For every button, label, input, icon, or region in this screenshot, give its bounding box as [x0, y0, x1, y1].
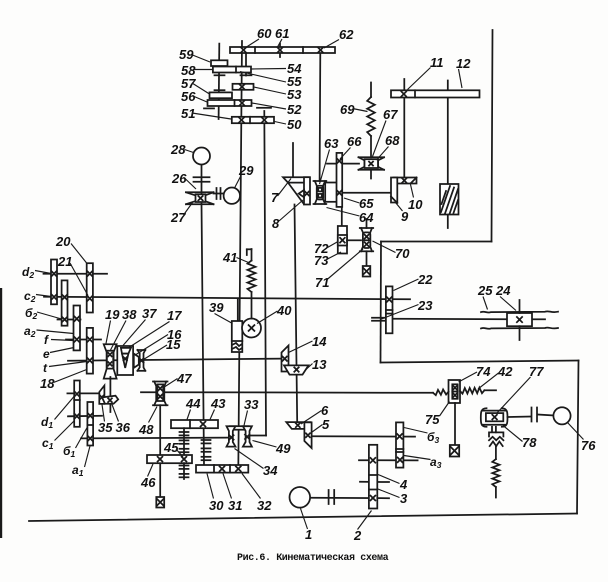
cone 14 — [282, 346, 289, 372]
svg-text:44: 44 — [185, 396, 201, 411]
wire horizontal y=193 (clutch 63 shaft to bracket 9) — [329, 192, 391, 194]
gear 53 — [233, 84, 254, 90]
wire horizontal y=436 (cone 5 to gear b3) — [312, 435, 416, 437]
gear 30-31-32 — [196, 465, 248, 473]
svg-text:25: 25 — [477, 283, 493, 298]
cone 7 — [283, 177, 310, 204]
wire jog clutch49 to shaft x=265 — [250, 435, 266, 437]
wire tick y=482 on gear 4 — [360, 481, 389, 483]
svg-text:76: 76 — [581, 438, 596, 453]
worm wheel 67-68 — [359, 157, 385, 170]
svg-text:б3: б3 — [427, 430, 439, 445]
gear column b1-a1 — [87, 402, 93, 446]
wire horizontal L8 y=438 (shaft a1 to clutch 33) — [81, 437, 228, 440]
svg-text:71: 71 — [315, 275, 329, 290]
hanger xbox below 46 — [156, 497, 164, 508]
svg-text:62: 62 — [339, 27, 354, 42]
wire stem below 70 — [366, 251, 368, 266]
spline teeth on shaft 30 — [202, 440, 211, 460]
wheel 40 — [242, 319, 261, 338]
clutch sleeve 63 — [314, 181, 327, 204]
svg-text:3: 3 — [400, 491, 408, 506]
weight 12 hatched — [440, 184, 459, 215]
svg-text:б1: б1 — [63, 444, 75, 459]
svg-text:35: 35 — [98, 420, 113, 435]
svg-text:d2: d2 — [22, 265, 34, 280]
cone 5 — [304, 422, 311, 448]
gear 72-73 — [338, 226, 347, 254]
wire shaft V x=265 (gear 50 to clutch 49) — [264, 111, 266, 436]
rack bar 11-12 — [391, 90, 480, 97]
wire right frame vertical upper — [492, 30, 493, 242]
svg-text:10: 10 — [408, 197, 423, 212]
coupling below 28 — [194, 177, 210, 181]
svg-text:29: 29 — [238, 163, 254, 178]
spring 78 — [492, 459, 499, 487]
wire horizontal L4 y=339.5 — [66, 339, 101, 341]
scan artifact left edge — [0, 288, 2, 538]
svg-text:22: 22 — [417, 272, 433, 287]
svg-text:23: 23 — [417, 298, 433, 313]
svg-text:21: 21 — [57, 254, 72, 269]
svg-text:2: 2 — [353, 528, 362, 543]
svg-text:6: 6 — [321, 403, 329, 418]
svg-text:47: 47 — [176, 371, 192, 386]
svg-text:53: 53 — [287, 87, 302, 102]
gear 57 — [210, 92, 233, 98]
svg-text:42: 42 — [497, 364, 513, 379]
motor 1 — [290, 487, 311, 508]
gear 56-52 — [208, 100, 252, 106]
svg-text:34: 34 — [263, 463, 278, 478]
cone 13 — [284, 365, 309, 374]
wire link 72 to 70 — [347, 239, 361, 241]
wire horizontal y=163.6 (gear 66 to worm 68) — [327, 163, 359, 165]
svg-text:30: 30 — [209, 498, 224, 513]
wire stem above damper 39 — [237, 299, 239, 321]
wire shaft V x=246 (top bar to gear 54) — [245, 53, 247, 76]
gear column f-e — [74, 306, 81, 351]
svg-text:13: 13 — [312, 357, 327, 372]
wire shaft V x=295 (cone 7 - cone 14 - cone 6) — [293, 143, 297, 422]
cone 36 — [102, 396, 118, 404]
svg-text:а3: а3 — [430, 455, 442, 470]
svg-text:9: 9 — [401, 209, 409, 224]
damper 74 — [449, 380, 461, 403]
cone 8 wedge — [299, 190, 309, 197]
svg-text:12: 12 — [456, 56, 471, 71]
svg-text:66: 66 — [347, 134, 362, 149]
wire horizontal L3 y=319.5 — [58, 319, 81, 321]
wire frame bottom horizontal — [29, 514, 577, 522]
cup 37 — [117, 346, 133, 375]
wire stem clutch 38 to cone 35 — [109, 377, 111, 412]
svg-text:38: 38 — [122, 307, 137, 322]
wire horizontal L7 y=416 — [68, 415, 102, 418]
svg-text:48: 48 — [138, 422, 154, 437]
svg-text:d1: d1 — [41, 415, 53, 430]
svg-text:52: 52 — [287, 102, 302, 117]
svg-text:74: 74 — [476, 364, 491, 379]
coupling to 29 — [214, 188, 225, 199]
svg-text:Рис.6. Кинематическая схема: Рис.6. Кинематическая схема — [237, 553, 389, 564]
wire below spring 78 — [495, 487, 497, 498]
bracket gear 15 — [138, 350, 146, 371]
svg-text:27: 27 — [170, 210, 186, 225]
svg-text:4: 4 — [399, 477, 408, 492]
cone 6 — [286, 422, 310, 429]
handwheel 28 — [193, 148, 210, 165]
svg-text:15: 15 — [166, 337, 181, 352]
svg-text:40: 40 — [276, 303, 292, 318]
svg-text:33: 33 — [244, 397, 259, 412]
sleeve 47-48 — [153, 382, 168, 406]
coupling on motor 1 shaft — [329, 490, 335, 504]
wire frame horizontal y=241 — [381, 241, 492, 243]
wire spring 41 stem — [247, 249, 252, 261]
svg-text:63: 63 — [324, 136, 339, 151]
spline teeth below 45 — [180, 463, 189, 479]
svg-text:45: 45 — [163, 440, 179, 455]
svg-text:46: 46 — [140, 475, 156, 490]
handwheel 76 — [553, 407, 570, 424]
gear 44-43 — [171, 420, 218, 428]
svg-text:73: 73 — [314, 253, 329, 268]
clutch sleeve 70-71 — [360, 228, 373, 251]
wire spring 41 to wheel 40 — [251, 292, 253, 319]
hanger xbox below 74 — [450, 445, 459, 457]
handwheel 29 — [224, 188, 240, 204]
bracket 9-10 — [391, 178, 417, 204]
wire 77 to coupling — [508, 416, 532, 419]
svg-text:б2: б2 — [25, 306, 37, 321]
svg-text:70: 70 — [395, 246, 410, 261]
wire after spring 42 — [484, 389, 496, 391]
svg-text:32: 32 — [257, 498, 272, 513]
spring 41 — [248, 261, 256, 293]
coupling 77-76 — [532, 408, 554, 422]
gear 22-23 — [386, 286, 393, 333]
svg-text:41: 41 — [222, 250, 237, 265]
wire shaft V x=241 (gear53/52 to clutch 33 and gear 31) — [238, 41, 242, 469]
svg-text:67: 67 — [383, 107, 398, 122]
cone 17 inside 37 — [121, 348, 131, 368]
svg-text:59: 59 — [179, 47, 194, 62]
svg-text:a2: a2 — [24, 324, 36, 339]
wire shaft V x=448 (wheel 12 to weight) — [447, 81, 449, 229]
svg-text:37: 37 — [142, 306, 157, 321]
svg-text:11: 11 — [430, 55, 444, 70]
gear column t-18 — [87, 328, 93, 374]
svg-text:e: e — [43, 347, 50, 361]
gear 66 — [337, 153, 343, 207]
svg-text:5: 5 — [322, 417, 330, 432]
wire stem ratchet to spring 78 — [495, 446, 497, 459]
wire horizontal L6 y=393.4 (shaft d1) — [67, 392, 100, 394]
svg-text:75: 75 — [425, 412, 440, 427]
svg-text:78: 78 — [522, 435, 537, 450]
svg-text:50: 50 — [287, 117, 302, 132]
wire tick stubs top train — [204, 44, 280, 109]
svg-text:24: 24 — [495, 283, 511, 298]
svg-text:31: 31 — [228, 498, 242, 513]
wire shaft V x=219 (gears 59-51) — [218, 44, 221, 119]
svg-text:43: 43 — [210, 396, 226, 411]
gear block top bar 60-61-62 — [230, 47, 335, 53]
cone 16 — [134, 354, 139, 368]
wire shaft V x=404 (wheel 11 to bracket 9) — [403, 79, 405, 178]
gear b3-a3 — [396, 422, 403, 467]
svg-text:77: 77 — [529, 364, 544, 379]
wire horizontal L2 y=297 (long shaft c2 to gear 22) — [44, 297, 410, 300]
svg-text:c2: c2 — [24, 289, 36, 304]
gear 51-50 — [232, 117, 274, 123]
gear 4-3-2 — [369, 445, 377, 509]
gear 59 — [211, 60, 228, 66]
wire horizontal y=392 (long shaft 47 to damper 74) — [141, 391, 433, 394]
svg-text:61: 61 — [275, 26, 289, 41]
gear 58-54 — [213, 67, 251, 73]
cone 35 — [99, 386, 104, 404]
wire horizontal y=460 (gear a3 shaft) — [359, 459, 418, 461]
svg-text:a1: a1 — [72, 463, 84, 478]
hub between 63 and 66 — [325, 183, 337, 202]
spring 69 — [367, 97, 375, 136]
svg-text:19: 19 — [105, 307, 120, 322]
svg-text:17: 17 — [167, 308, 182, 323]
svg-text:7: 7 — [271, 190, 279, 205]
wire frame vertical x=381 — [380, 242, 383, 363]
lead screw nut 24 and screw 25 — [481, 300, 558, 340]
wire stem above 70 — [366, 219, 368, 228]
gear column d1-c1 — [74, 381, 80, 427]
wire double line left of gear 23 — [372, 318, 387, 321]
wire shaft V x=320 (wheel 62 to clutch 63) — [319, 53, 322, 181]
friction drive 77 — [481, 408, 508, 427]
svg-text:t: t — [43, 361, 48, 375]
clutch sleeve 19-38 — [104, 344, 117, 378]
svg-text:c1: c1 — [42, 436, 54, 451]
svg-text:60: 60 — [257, 26, 272, 41]
gear column b2 — [62, 280, 68, 325]
svg-text:39: 39 — [209, 300, 224, 315]
svg-text:65: 65 — [359, 196, 374, 211]
worm gear 26-27 — [186, 192, 214, 204]
svg-text:36: 36 — [116, 420, 131, 435]
wire horizontal L5 y=360 (shaft to cone 14) — [68, 359, 282, 361]
svg-text:14: 14 — [312, 334, 327, 349]
svg-text:8: 8 — [272, 216, 280, 231]
spring 42 right of 74 — [460, 388, 484, 394]
svg-text:68: 68 — [385, 133, 400, 148]
ratchet 78 below 77 — [489, 427, 503, 446]
wire horizontal y=498 (motor 1 shaft to gear 3) — [310, 497, 389, 499]
gear column d2-c2 — [51, 260, 57, 305]
svg-text:64: 64 — [359, 210, 374, 225]
svg-text:49: 49 — [275, 441, 291, 456]
wire horizontal y=319 (lead screw shaft) — [393, 318, 546, 321]
wire stem below 74 — [454, 403, 456, 445]
wire horizontal L1 y=273.7 (shaft d2) — [44, 273, 108, 275]
spline teeth on shaft 45 — [180, 428, 189, 455]
hanger xbox below 70 — [363, 266, 371, 277]
wire shaft 48 down — [159, 405, 161, 497]
svg-text:f: f — [44, 333, 49, 347]
gear 45-46 — [147, 455, 192, 463]
svg-text:28: 28 — [170, 142, 186, 157]
claw clutch 33-34-49 — [227, 426, 252, 446]
damper 39 — [232, 321, 243, 352]
wire spring69 stem — [370, 83, 372, 98]
gear column 20-21 — [87, 263, 93, 312]
svg-text:18: 18 — [40, 376, 55, 391]
spring left of 74 — [433, 390, 449, 396]
svg-text:20: 20 — [55, 234, 71, 249]
wire frame horizontal y=362 — [381, 361, 579, 363]
wire frame vertical x=578 — [577, 361, 579, 514]
wire spool 67 stem — [370, 136, 372, 179]
wire stem 66 to gear 72 — [341, 207, 343, 226]
svg-text:69: 69 — [340, 102, 355, 117]
wire shaft V x=201 (motor 28 shaft down to gear 44 and gear 30) — [202, 165, 205, 466]
svg-text:1: 1 — [305, 527, 312, 542]
